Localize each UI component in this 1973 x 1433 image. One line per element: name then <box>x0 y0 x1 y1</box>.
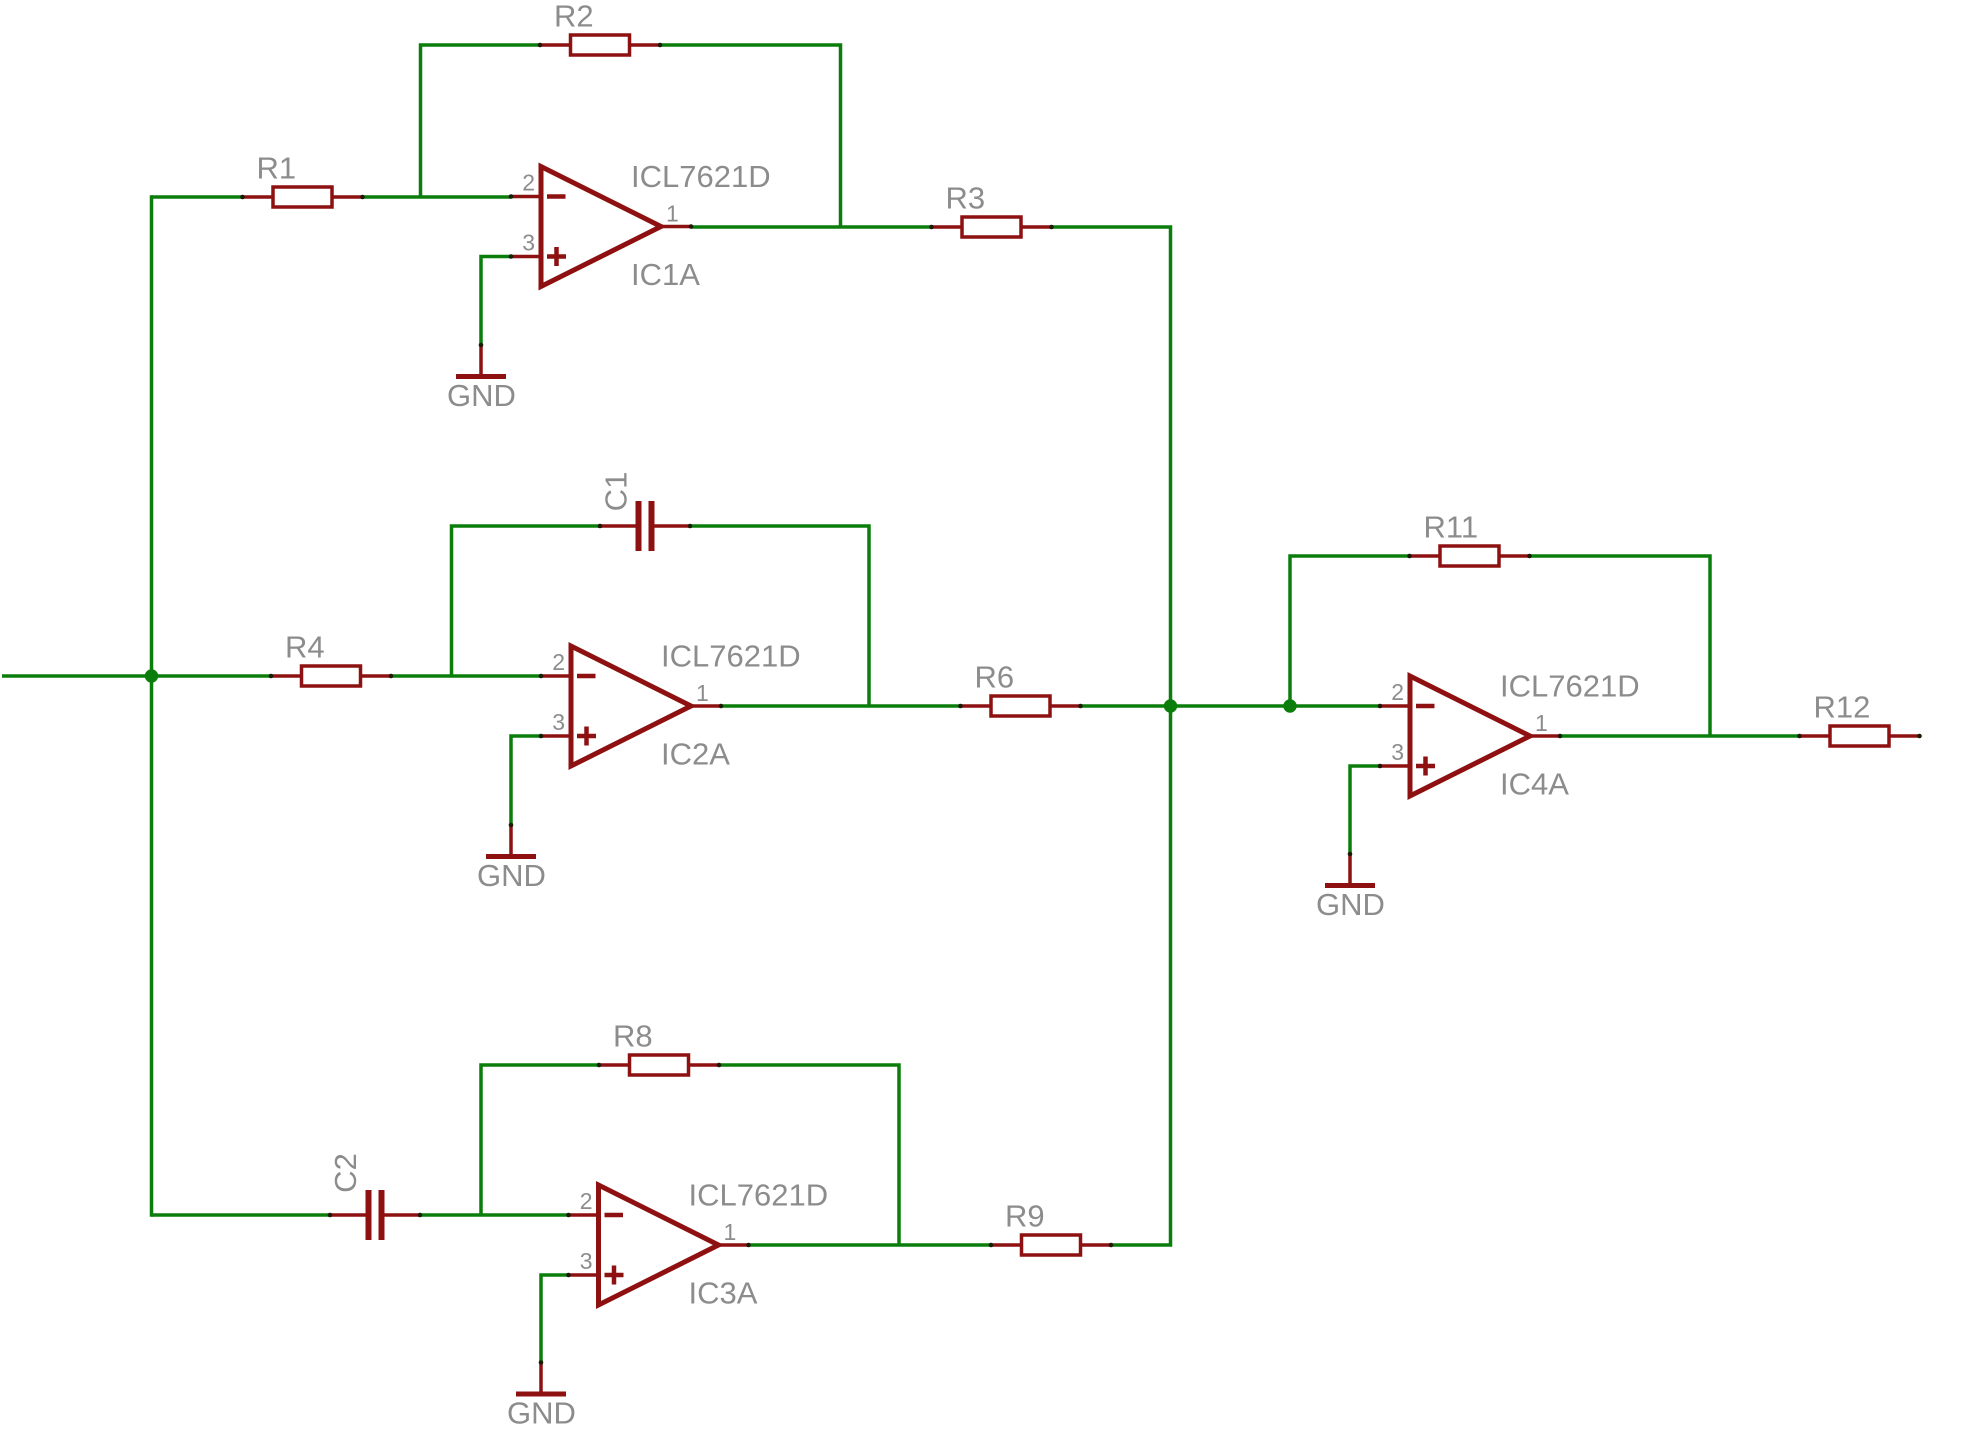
svg-text:GND: GND <box>447 378 516 413</box>
svg-text:IC2A: IC2A <box>661 737 730 772</box>
svg-text:ICL7621D: ICL7621D <box>661 639 801 674</box>
svg-text:2: 2 <box>1391 679 1404 705</box>
svg-text:GND: GND <box>477 858 546 893</box>
svg-text:R3: R3 <box>946 181 986 216</box>
svg-text:1: 1 <box>696 680 709 706</box>
svg-text:R2: R2 <box>554 0 594 34</box>
svg-text:C2: C2 <box>328 1153 363 1193</box>
svg-text:3: 3 <box>1391 739 1404 765</box>
svg-text:1: 1 <box>724 1219 737 1245</box>
svg-text:R8: R8 <box>613 1019 653 1054</box>
svg-text:GND: GND <box>1316 887 1385 922</box>
svg-text:R12: R12 <box>1814 690 1871 725</box>
svg-text:GND: GND <box>507 1396 576 1431</box>
svg-text:2: 2 <box>580 1188 593 1214</box>
svg-text:1: 1 <box>666 201 679 227</box>
svg-text:ICL7621D: ICL7621D <box>1500 669 1640 704</box>
svg-text:C1: C1 <box>598 472 633 512</box>
svg-text:R6: R6 <box>975 660 1015 695</box>
svg-text:1: 1 <box>1535 710 1548 736</box>
svg-text:3: 3 <box>522 230 535 256</box>
svg-text:3: 3 <box>580 1248 593 1274</box>
svg-text:IC1A: IC1A <box>631 257 700 292</box>
svg-text:3: 3 <box>552 709 565 735</box>
svg-text:IC3A: IC3A <box>689 1276 758 1311</box>
svg-text:R1: R1 <box>257 151 297 186</box>
svg-text:R9: R9 <box>1005 1199 1045 1234</box>
svg-text:2: 2 <box>552 649 565 675</box>
svg-text:2: 2 <box>522 170 535 196</box>
svg-text:R11: R11 <box>1424 510 1479 545</box>
svg-text:ICL7621D: ICL7621D <box>631 159 771 194</box>
svg-text:ICL7621D: ICL7621D <box>689 1178 829 1213</box>
svg-text:IC4A: IC4A <box>1500 767 1569 802</box>
svg-text:R4: R4 <box>285 630 325 665</box>
